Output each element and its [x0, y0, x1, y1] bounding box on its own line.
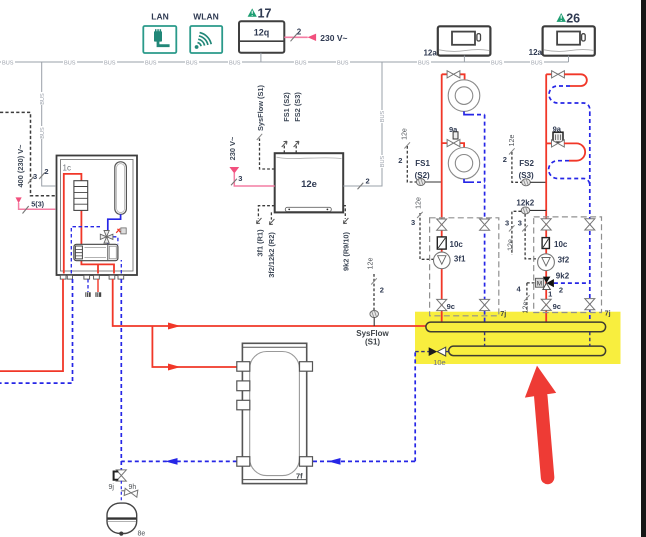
- svg-text:9k2 (R9/10): 9k2 (R9/10): [342, 231, 351, 271]
- sensor 12k2: [516, 198, 546, 214]
- svg-text:BUS: BUS: [2, 61, 14, 67]
- svg-text:1: 1: [548, 289, 552, 298]
- svg-text:FS1 (S2): FS1 (S2): [282, 92, 291, 122]
- pump 3f1 control line: [411, 197, 434, 259]
- svg-text:7j: 7j: [605, 309, 611, 318]
- red flow arrow on supply: [168, 323, 181, 330]
- svg-text:5(3): 5(3): [31, 199, 44, 208]
- check valve 10c circuit2: [542, 238, 568, 249]
- blue pipe to external left: [0, 279, 73, 383]
- FS2 S3 stub on 12e: [293, 92, 302, 154]
- svg-text:LAN: LAN: [151, 12, 168, 22]
- heat pump 1c outer box: [57, 156, 138, 276]
- svg-text:FS2: FS2: [519, 159, 534, 168]
- circuit2 shutoff valve top: [546, 71, 564, 78]
- 12k2 line to 12e: [505, 211, 521, 255]
- svg-text:BUS: BUS: [491, 61, 503, 67]
- 1c sensor with red mark: [116, 228, 126, 234]
- svg-text:26: 26: [566, 11, 580, 25]
- svg-text:FS2 (S3): FS2 (S3): [293, 92, 302, 122]
- svg-text:12e: 12e: [367, 258, 374, 270]
- svg-text:12k2: 12k2: [516, 198, 534, 207]
- BUS riser left with labels: [38, 62, 55, 186]
- svg-text:SysFlow: SysFlow: [356, 329, 389, 338]
- 230V supply line at 12q: [284, 27, 347, 42]
- svg-text:BUS: BUS: [337, 61, 349, 67]
- 12e output hook 3f1 R1: [255, 206, 274, 257]
- svg-text:9c: 9c: [553, 302, 561, 311]
- warning triangle 26: [557, 11, 581, 25]
- circuit1 blue riser: [484, 115, 486, 323]
- svg-text:3: 3: [411, 218, 415, 227]
- svg-text:12e: 12e: [402, 128, 409, 140]
- circuit2 blue riser: [589, 112, 591, 322]
- BUS riser to 12e: [343, 62, 386, 189]
- floor coil circuit2 upper red part: [564, 74, 587, 86]
- svg-text:M: M: [537, 281, 542, 288]
- floor coil circuit2 lower red part: [564, 143, 585, 160]
- svg-text:BUS: BUS: [145, 61, 157, 67]
- supply manifold pipe: [426, 322, 606, 332]
- BUS trunk labels: [1, 58, 544, 67]
- svg-text:12q: 12q: [254, 28, 270, 38]
- 1c compressor unit: [74, 244, 118, 260]
- heat meter 9a circuit1: [442, 125, 464, 148]
- valve circuit1 blue top: [480, 219, 490, 230]
- mains supply arrow pink: [16, 197, 56, 213]
- 1c blue internal pipes: [108, 214, 121, 244]
- room unit 12a circuit 2: [529, 26, 595, 62]
- mixing circuit box 7j circuit2: [534, 217, 602, 313]
- svg-text:3f1: 3f1: [454, 254, 466, 263]
- svg-text:BUS: BUS: [186, 61, 198, 67]
- main red supply from heat pump: [113, 279, 427, 326]
- circuit1 shutoff valve top: [442, 71, 465, 80]
- heat meter 9a circuit2: [546, 124, 564, 147]
- svg-text:7f: 7f: [296, 471, 303, 480]
- svg-text:BUS: BUS: [229, 61, 241, 67]
- svg-text:3: 3: [518, 219, 522, 228]
- valve 9j with cap: [109, 470, 127, 491]
- buffer tank 7f: [237, 343, 313, 483]
- svg-text:3: 3: [33, 172, 37, 181]
- blue return right of tank: [313, 460, 415, 462]
- svg-text:12a: 12a: [529, 48, 543, 57]
- svg-text:10c: 10c: [450, 240, 464, 249]
- 1c red internal pipes: [64, 174, 114, 274]
- svg-text:10e: 10e: [433, 358, 446, 367]
- 1c reversing valve: [100, 231, 113, 244]
- pump 3f1: [434, 252, 467, 269]
- LAN icon: [143, 26, 176, 53]
- floor coil circuit2 lower blue part: [549, 161, 590, 185]
- 1c accumulator capsule: [115, 162, 127, 215]
- SysFlow S1 line into 12e: [256, 84, 275, 169]
- svg-text:7j: 7j: [500, 309, 506, 318]
- svg-text:12e: 12e: [508, 239, 515, 251]
- svg-text:12e: 12e: [523, 302, 530, 314]
- controller 12e box: [275, 153, 344, 212]
- red branch to buffer tank: [152, 326, 236, 367]
- warning triangle 17: [248, 6, 272, 20]
- 1c bottom feet: [60, 275, 123, 279]
- pump 3f2 control line: [518, 214, 538, 259]
- check valve 10e: [415, 347, 449, 367]
- svg-text:10c: 10c: [554, 240, 568, 249]
- svg-text:WLAN: WLAN: [193, 12, 219, 22]
- svg-text:9h: 9h: [129, 484, 137, 491]
- svg-text:BUS: BUS: [64, 61, 76, 67]
- valve circuit1 blue bottom: [480, 299, 490, 310]
- blue riser from manifold 10e: [414, 352, 416, 462]
- svg-text:2: 2: [44, 167, 48, 176]
- manifold interconnects: [485, 332, 590, 346]
- radiator circuit1 upper: [448, 80, 484, 115]
- 230V supply into 12e: [228, 136, 275, 186]
- svg-text:230 V~: 230 V~: [320, 33, 347, 43]
- BUS trunk line: [0, 61, 569, 63]
- svg-text:BUS: BUS: [40, 127, 46, 139]
- svg-text:3f2: 3f2: [558, 256, 570, 265]
- valve circuit2 blue top: [585, 219, 595, 230]
- svg-text:1c: 1c: [63, 164, 71, 173]
- svg-text:17: 17: [258, 6, 272, 20]
- yellow highlight: [415, 312, 621, 364]
- svg-text:BUS: BUS: [40, 93, 46, 105]
- svg-text:400 (230) V~: 400 (230) V~: [16, 144, 25, 188]
- pump 3f2: [538, 254, 570, 271]
- svg-text:(S1): (S1): [365, 338, 380, 347]
- gateway 12q box: [239, 21, 284, 53]
- FS1 sensor: [416, 179, 425, 186]
- svg-text:3: 3: [505, 219, 509, 228]
- FS1 S2 stub on 12e: [282, 92, 291, 154]
- svg-text:BUS: BUS: [531, 61, 543, 67]
- mixer control line 12e: [517, 283, 536, 313]
- floor coil circuit2 upper blue part: [549, 86, 590, 112]
- svg-text:8e: 8e: [138, 531, 146, 537]
- SysFlow S1 sensor at manifold: [356, 258, 389, 347]
- condensate drain stubs: [97, 279, 99, 292]
- FS1 sensor line from 12e: [398, 128, 416, 182]
- svg-text:BUS: BUS: [380, 155, 386, 167]
- main blue return to heat pump: [120, 279, 122, 470]
- svg-text:BUS: BUS: [380, 110, 386, 122]
- svg-text:12e: 12e: [301, 179, 317, 190]
- svg-text:9c: 9c: [447, 302, 455, 311]
- svg-text:FS1: FS1: [415, 159, 430, 168]
- svg-text:BUS: BUS: [418, 61, 430, 67]
- 12e output hook 9k2 R9/10: [342, 206, 351, 271]
- svg-text:2: 2: [503, 155, 507, 164]
- svg-text:3: 3: [238, 174, 242, 183]
- svg-text:BUS: BUS: [104, 61, 116, 67]
- drain glyph 1: [85, 292, 90, 297]
- valve circuit1 red top: [437, 219, 447, 230]
- WLAN icon: [190, 26, 222, 53]
- room unit 12a circuit 1: [423, 26, 490, 62]
- 12e output hook 3f2/12k2 R2: [267, 212, 276, 277]
- mains power dashed line 400V: [0, 112, 55, 195]
- blue flow arrow right segment: [328, 458, 341, 465]
- radiator circuit1 lower: [448, 148, 484, 183]
- svg-text:12e: 12e: [509, 135, 516, 147]
- svg-text:2: 2: [297, 27, 302, 36]
- FS2 sensor: [522, 179, 531, 186]
- red pipe to external left: [0, 279, 63, 371]
- svg-text:12a: 12a: [423, 49, 437, 58]
- window edge black bar: [641, 0, 646, 537]
- FS2 sensor line from 12e: [503, 135, 522, 183]
- circuit2 red riser: [545, 74, 547, 322]
- valve 9c circuit1 red: [437, 299, 455, 310]
- red flow arrow on branch: [168, 364, 181, 371]
- expansion vessel 8e: [107, 503, 145, 537]
- svg-text:12e: 12e: [415, 197, 422, 209]
- valve circuit2 red top: [541, 219, 551, 230]
- return manifold pipe: [449, 346, 606, 356]
- svg-text:3f1 (R1): 3f1 (R1): [255, 229, 264, 257]
- red annotation arrow: [525, 366, 556, 478]
- 1c heat exchanger: [74, 181, 88, 211]
- valve circuit2 blue bottom: [585, 299, 595, 310]
- mixer 9k2: [535, 272, 589, 299]
- circuit1 red riser: [441, 74, 443, 322]
- svg-text:2: 2: [398, 156, 402, 165]
- valve 9c circuit2 red: [541, 299, 561, 311]
- svg-text:230 V~: 230 V~: [228, 136, 237, 160]
- blue flow arrow left segment: [165, 458, 178, 465]
- svg-text:3f2/12k2 (R2): 3f2/12k2 (R2): [267, 232, 276, 278]
- blue return tank to riser: [121, 460, 237, 462]
- svg-text:9j: 9j: [109, 484, 115, 491]
- drain glyph 2: [95, 292, 101, 297]
- svg-text:SysFlow (S1): SysFlow (S1): [256, 84, 265, 131]
- svg-text:BUS: BUS: [295, 61, 307, 67]
- check valve 10c circuit1: [437, 237, 463, 249]
- mixing circuit box 7j circuit1: [430, 218, 499, 316]
- svg-text:2: 2: [366, 177, 370, 186]
- svg-text:2: 2: [380, 285, 384, 294]
- wire 12q to BUS: [260, 53, 262, 62]
- svg-text:2: 2: [559, 286, 563, 295]
- valve 9h: [121, 481, 138, 503]
- svg-text:9k2: 9k2: [556, 272, 570, 281]
